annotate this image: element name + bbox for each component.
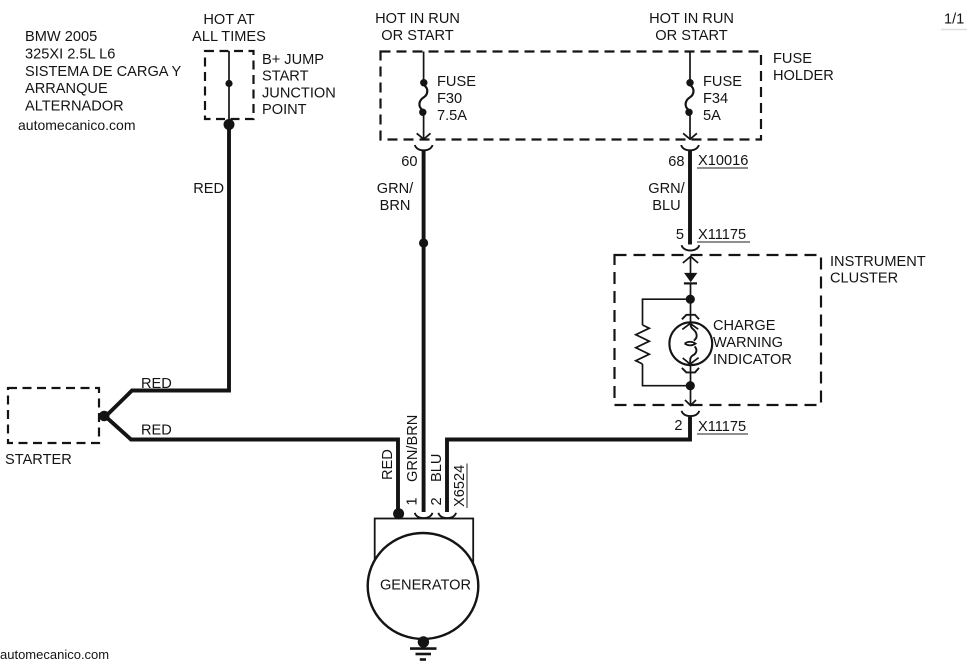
svg-text:B+ JUMP: B+ JUMP — [262, 52, 324, 68]
svg-text:OR START: OR START — [655, 28, 728, 44]
svg-text:F34: F34 — [703, 91, 728, 107]
ground symbol — [410, 649, 437, 660]
svg-text:ALL TIMES: ALL TIMES — [192, 29, 266, 45]
svg-text:325XI 2.5L L6: 325XI 2.5L L6 — [25, 46, 115, 62]
svg-text:BRN: BRN — [380, 198, 411, 214]
generator body — [368, 533, 479, 639]
wire: B+ junction internal lead — [228, 51, 230, 125]
label INSTRUMENT CLUSTER — [830, 254, 926, 287]
svg-text:1: 1 — [405, 497, 421, 505]
svg-text:60: 60 — [401, 154, 417, 170]
svg-text:GRN/: GRN/ — [648, 181, 685, 197]
junction dot (B+ box bottom) — [224, 119, 235, 130]
generator terminal block — [375, 519, 474, 569]
svg-text:CLUSTER: CLUSTER — [830, 271, 898, 287]
diode CR — [684, 273, 697, 299]
cluster entry arrow (up) — [683, 257, 698, 274]
svg-text:HOT IN RUN: HOT IN RUN — [649, 11, 734, 27]
fuse F30 — [417, 52, 431, 140]
connector terminal 5 X11175 — [682, 245, 700, 250]
ground dot — [418, 636, 429, 647]
svg-text:FUSE: FUSE — [703, 74, 742, 90]
svg-text:automecanico.com: automecanico.com — [18, 117, 136, 133]
svg-text:RED: RED — [193, 181, 224, 197]
fuse F34 — [683, 52, 697, 140]
svg-text:START: START — [262, 69, 309, 85]
cluster exit arrow (down) — [685, 386, 696, 405]
svg-text:7.5A: 7.5A — [437, 108, 467, 124]
B+ jump start junction point box — [205, 51, 254, 119]
svg-text:POINT: POINT — [262, 102, 307, 118]
svg-text:INSTRUMENT: INSTRUMENT — [830, 254, 926, 270]
label CHARGE WARNING INDICATOR — [713, 318, 792, 368]
fuse holder box — [381, 52, 762, 140]
svg-text:STARTER: STARTER — [5, 452, 72, 468]
label FUSE HOLDER — [773, 51, 834, 84]
node dot (top of bulb branch) — [686, 295, 695, 304]
title text block — [18, 29, 182, 133]
wire RED (starter to generator B+) — [106, 417, 399, 513]
resistor branch wiring — [643, 299, 691, 386]
label B+ JUMP START JUNCTION POINT — [262, 52, 336, 118]
svg-text:ARRANQUE: ARRANQUE — [25, 81, 108, 97]
header HOT IN RUN OR START (right) — [649, 11, 734, 44]
splice dot on GRN/BRN — [419, 238, 428, 247]
svg-text:2: 2 — [429, 497, 445, 505]
svg-text:X10016: X10016 — [698, 153, 748, 169]
wire BLU (cluster pin 2 to generator pin 2) — [447, 417, 690, 512]
svg-text:X11175: X11175 — [698, 227, 746, 243]
svg-text:HOT AT: HOT AT — [203, 12, 254, 28]
label FUSE F30 7.5A — [437, 74, 476, 124]
connector X6524 (rotated label) — [452, 464, 468, 509]
svg-text:OR START: OR START — [381, 28, 454, 44]
svg-text:68: 68 — [668, 154, 684, 170]
svg-text:BLU: BLU — [429, 454, 445, 482]
svg-text:BLU: BLU — [652, 198, 680, 214]
page number 1/1 — [941, 12, 967, 30]
junction dot at starter — [99, 411, 110, 422]
connector cup pin 2 — [438, 513, 456, 518]
svg-text:1/1: 1/1 — [944, 12, 964, 28]
connector cup pin 1 — [415, 513, 433, 518]
instrument cluster box — [615, 255, 822, 405]
junction dot at generator B+ — [393, 508, 404, 519]
svg-text:SISTEMA DE CARGA Y: SISTEMA DE CARGA Y — [25, 64, 182, 80]
charge warning indicator bulb — [669, 299, 712, 386]
svg-text:RED: RED — [380, 449, 396, 480]
svg-text:ALTERNADOR: ALTERNADOR — [25, 99, 124, 115]
svg-text:F30: F30 — [437, 91, 462, 107]
label GRN/ BRN — [377, 181, 414, 214]
svg-text:RED: RED — [141, 376, 172, 392]
svg-text:5: 5 — [676, 227, 684, 243]
svg-text:automecanico.com: automecanico.com — [0, 647, 109, 661]
node dot (bottom of bulb branch) — [686, 381, 695, 390]
svg-text:2: 2 — [674, 418, 682, 434]
svg-text:GRN/: GRN/ — [377, 181, 414, 197]
label FUSE F34 5A — [703, 74, 742, 124]
connector terminal 60 — [415, 145, 433, 150]
svg-text:BMW 2005: BMW 2005 — [25, 29, 97, 45]
svg-text:X6524: X6524 — [452, 465, 468, 507]
resistor (zigzag) — [636, 325, 650, 364]
label GRN/ BLU — [648, 181, 685, 214]
connector terminal 2 X11175 — [682, 411, 700, 416]
svg-text:GENERATOR: GENERATOR — [380, 578, 471, 594]
svg-text:CHARGE: CHARGE — [713, 318, 776, 334]
svg-text:GRN/BRN: GRN/BRN — [405, 415, 421, 482]
header HOT AT ALL TIMES — [192, 12, 266, 45]
starter box — [8, 388, 99, 443]
svg-text:WARNING: WARNING — [713, 335, 783, 351]
junction dot (inside B+ box) — [225, 80, 232, 87]
svg-text:JUNCTION: JUNCTION — [262, 85, 336, 101]
svg-text:RED: RED — [141, 423, 172, 439]
svg-text:5A: 5A — [703, 108, 721, 124]
header HOT IN RUN OR START (left) — [375, 11, 460, 44]
svg-text:INDICATOR: INDICATOR — [713, 352, 792, 368]
svg-text:X11175: X11175 — [698, 419, 746, 435]
svg-text:FUSE: FUSE — [773, 51, 812, 67]
svg-text:FUSE: FUSE — [437, 74, 476, 90]
svg-text:HOLDER: HOLDER — [773, 68, 834, 84]
svg-text:HOT IN RUN: HOT IN RUN — [375, 11, 460, 27]
wire GRN/BLU (fuse F34 to instrument cluster) — [688, 150, 692, 245]
wire RED from B+ junction to starter — [106, 124, 230, 417]
connector terminal 68 X10016 — [681, 145, 699, 150]
wire GRN/BRN (fuse F30 to generator pin 1) — [422, 150, 426, 513]
